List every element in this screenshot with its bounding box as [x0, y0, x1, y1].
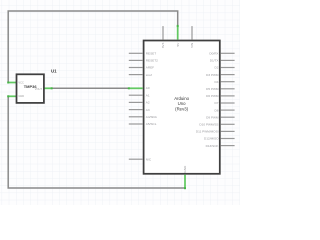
wire endpoint dots — [7, 25, 186, 189]
svg-text:D3 PWM: D3 PWM — [206, 73, 219, 77]
svg-text:A5/SCL: A5/SCL — [146, 122, 157, 126]
left pin labels — [146, 52, 158, 162]
pin D3 — [221, 74, 235, 76]
svg-text:N/C: N/C — [146, 157, 152, 161]
pin D11 — [221, 130, 235, 132]
Arduino Uno body U2 — [144, 41, 220, 174]
right pin stubs D0-D13 — [221, 53, 235, 145]
svg-text:D1/TX: D1/TX — [210, 59, 219, 63]
pin A1 — [129, 94, 143, 96]
pin A4 — [129, 116, 143, 118]
junction at Arduino 5V — [177, 25, 179, 27]
svg-text:RESET2: RESET2 — [146, 59, 158, 63]
pin A0 (green, connected) — [129, 87, 143, 89]
left pin stubs — [129, 53, 143, 159]
svg-text:A2: A2 — [146, 101, 150, 105]
svg-text:D2: D2 — [215, 66, 219, 70]
pin A2 — [129, 101, 143, 103]
svg-text:D10 PWM/SS: D10 PWM/SS — [199, 123, 218, 127]
svg-text:D0/RX: D0/RX — [209, 52, 218, 56]
pin RESET2 — [129, 59, 143, 61]
TMP36 body U1 — [17, 74, 44, 103]
pin D10 — [221, 123, 235, 125]
pin A5 — [129, 123, 143, 125]
right pin labels — [196, 52, 220, 148]
svg-text:RESET: RESET — [146, 52, 156, 56]
svg-text:D8: D8 — [215, 108, 219, 112]
svg-text:D13/SCK: D13/SCK — [206, 144, 220, 148]
TMP36 pin GND (green stub) — [8, 95, 16, 97]
svg-text:AREF: AREF — [146, 66, 154, 70]
pin D1 — [221, 59, 235, 61]
pin RESET — [129, 52, 143, 54]
svg-text:A1: A1 — [146, 93, 150, 97]
svg-text:D11 PWM/MOSI: D11 PWM/MOSI — [196, 130, 219, 134]
junction at Arduino A0 — [128, 87, 130, 89]
svg-text:ioref: ioref — [146, 73, 152, 77]
pin D0 — [221, 52, 235, 54]
svg-text:U1: U1 — [51, 69, 57, 74]
svg-text:GND: GND — [183, 165, 187, 173]
junction at Arduino GND — [184, 187, 186, 189]
svg-text:Arduino: Arduino — [174, 96, 189, 101]
svg-text:A3: A3 — [146, 108, 150, 112]
svg-text:VCC: VCC — [18, 80, 24, 84]
svg-text:D4: D4 — [215, 80, 219, 84]
pin AREF — [129, 67, 143, 69]
pin D4 — [221, 81, 235, 83]
svg-text:A4/SDA: A4/SDA — [146, 115, 158, 119]
junction at TMP36 VOUT — [51, 87, 53, 89]
top pin labels (rotated) — [161, 42, 194, 48]
pin N/C — [129, 158, 143, 160]
pin D2 — [221, 67, 235, 69]
pin ioref — [129, 74, 143, 76]
svg-text:D12/MISO: D12/MISO — [204, 137, 219, 141]
svg-text:(Rev3): (Rev3) — [175, 106, 188, 111]
wire: 5V net (TMP36 VCC to Arduino 5V) — [8, 11, 178, 83]
svg-text:VIN: VIN — [190, 43, 194, 48]
svg-text:D6 PWM: D6 PWM — [206, 94, 219, 98]
pin D8 — [221, 109, 235, 111]
pin D9 — [221, 116, 235, 118]
svg-text:D5 PWM: D5 PWM — [206, 87, 219, 91]
junction at TMP36 VCC — [7, 82, 9, 84]
wire: GND net (TMP36 GND to Arduino GND) — [8, 96, 185, 188]
junction at TMP36 GND — [7, 95, 9, 97]
pin D7 — [221, 102, 235, 104]
pin D13 — [221, 145, 235, 147]
pin D5 — [221, 88, 235, 90]
TMP36 pin VCC (green stub) — [8, 82, 16, 84]
pin GND bottom (green, connected) — [184, 175, 186, 189]
wire: signal VOUT to A0 — [52, 87, 129, 89]
svg-text:D7: D7 — [215, 101, 219, 105]
svg-text:3V3: 3V3 — [161, 42, 165, 48]
svg-text:VOUT: VOUT — [35, 87, 43, 91]
pin 3V3 — [162, 26, 164, 39]
pin D12 — [221, 138, 235, 140]
svg-text:D9 PWM: D9 PWM — [206, 115, 219, 119]
pin VIN — [191, 26, 193, 39]
svg-text:A0: A0 — [146, 86, 150, 90]
pin D6 — [221, 95, 235, 97]
TMP36 pin VOUT (green stub) — [44, 87, 52, 89]
svg-text:GND: GND — [18, 94, 24, 98]
pin 5V (green, connected) — [177, 26, 179, 40]
pin A3 — [129, 109, 143, 111]
